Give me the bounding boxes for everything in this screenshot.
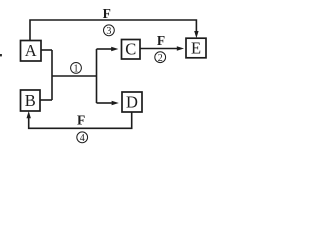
wire: B right to junction bbox=[40, 99, 52, 101]
stray dash mark at left edge bbox=[0, 54, 2, 56]
svg-text:2: 2 bbox=[158, 53, 163, 64]
wire: top feedback A to E bbox=[30, 20, 196, 41]
svg-text:F: F bbox=[157, 33, 165, 48]
label circled 2 bbox=[155, 52, 166, 64]
wire: arrow into C bbox=[97, 48, 112, 50]
svg-text:D: D bbox=[126, 92, 138, 111]
wire: A right to junction bbox=[41, 49, 52, 51]
svg-text:F: F bbox=[77, 113, 85, 128]
label circled 3 bbox=[104, 25, 115, 37]
svg-text:C: C bbox=[125, 40, 136, 59]
wire: C to E arrow bbox=[140, 48, 178, 50]
wire: bottom feedback D to B bbox=[29, 112, 132, 128]
svg-text:A: A bbox=[25, 41, 37, 60]
svg-text:3: 3 bbox=[106, 26, 111, 37]
wire: vertical bus before C and D bbox=[96, 49, 98, 103]
block E bbox=[186, 38, 206, 58]
svg-text:E: E bbox=[191, 39, 201, 58]
svg-text:F: F bbox=[103, 6, 111, 21]
block C bbox=[122, 40, 141, 60]
wire: vertical bus between A and B bbox=[51, 50, 53, 100]
svg-text:B: B bbox=[25, 91, 36, 110]
block D bbox=[122, 92, 142, 112]
block A bbox=[21, 41, 42, 62]
wire: horizontal middle link bbox=[52, 75, 97, 77]
svg-text:1: 1 bbox=[74, 64, 79, 75]
arrowhead into B bottom bbox=[27, 111, 31, 118]
svg-text:4: 4 bbox=[80, 133, 85, 144]
block B bbox=[21, 90, 41, 111]
label circled 1 bbox=[71, 63, 82, 75]
label circled 4 bbox=[77, 132, 88, 144]
wire: arrow into D bbox=[97, 102, 112, 104]
arrowhead into E top bbox=[194, 31, 198, 38]
